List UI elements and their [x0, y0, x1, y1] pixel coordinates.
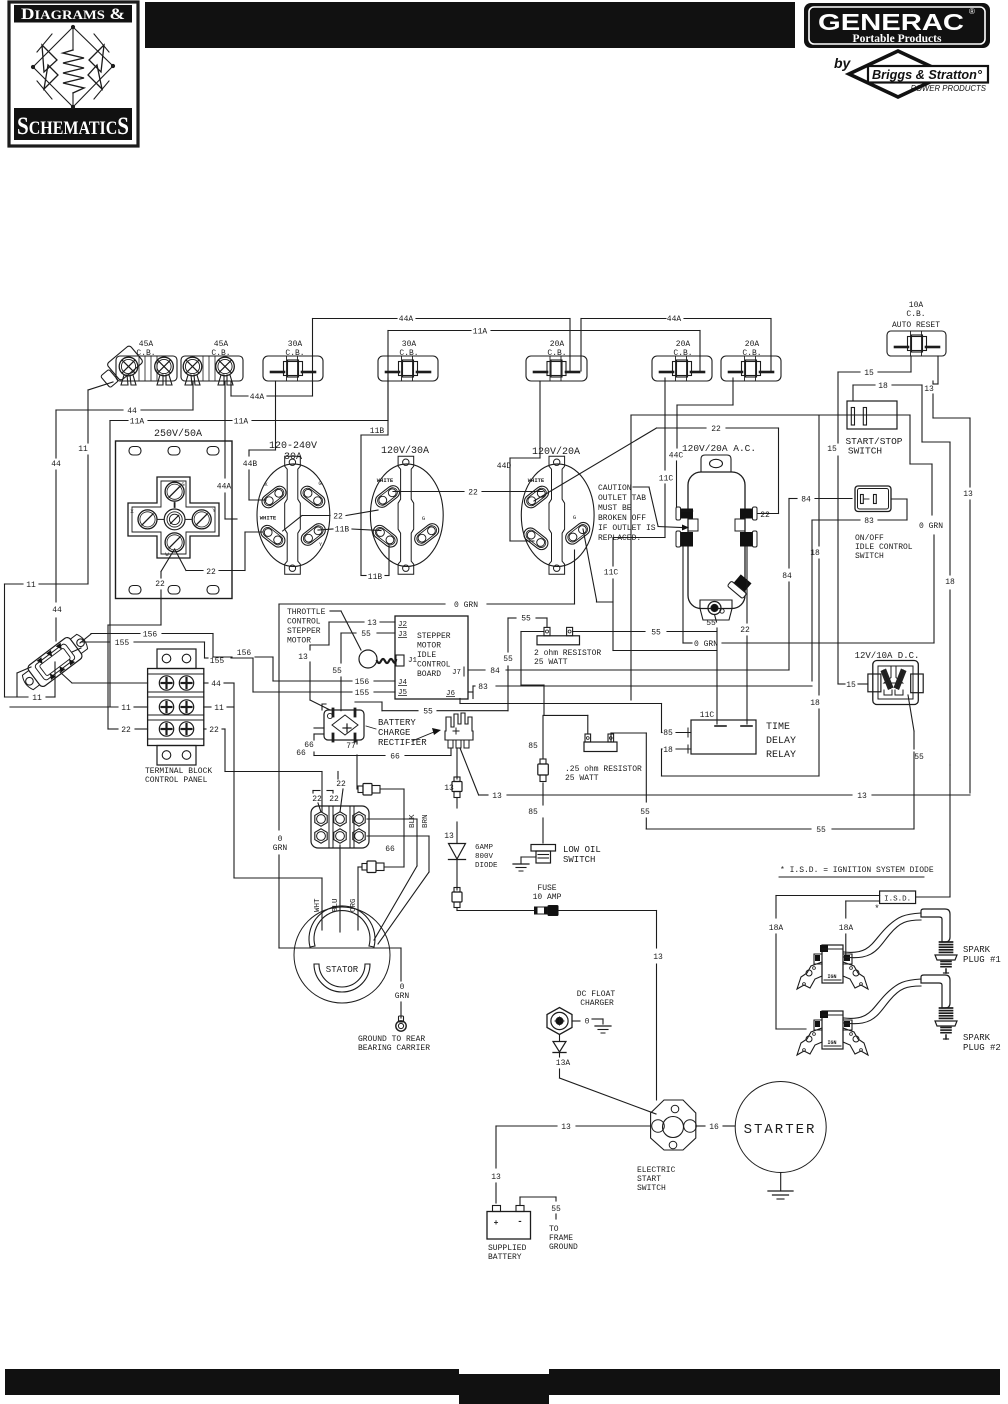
wire 55 2ohm resistor to TDR: [573, 629, 717, 638]
wire 11B outlet1 Y to outlet2 lower slot: [318, 526, 381, 535]
svg-text:CAUTION: CAUTION: [598, 484, 632, 493]
svg-text:IGN: IGN: [827, 974, 836, 980]
svg-text:TERMINAL BLOCK: TERMINAL BLOCK: [145, 767, 212, 776]
circuit breaker 45A C.B. #1: [116, 340, 177, 385]
svg-text:G: G: [318, 480, 321, 487]
svg-text:DIODE: DIODE: [475, 862, 498, 870]
switch ON/OFF idle control: [855, 486, 913, 561]
outlet 120V/20A: [521, 446, 594, 574]
svg-text:55: 55: [651, 629, 661, 638]
svg-text:*: *: [874, 904, 879, 914]
svg-text:10 AMP: 10 AMP: [533, 893, 562, 902]
svg-text:84: 84: [801, 496, 811, 505]
svg-text:44A: 44A: [250, 393, 265, 402]
svg-text:11: 11: [32, 694, 42, 703]
svg-text:ELECTRIC: ELECTRIC: [637, 1166, 676, 1175]
svg-text:55: 55: [361, 630, 371, 639]
svg-text:11A: 11A: [130, 418, 145, 427]
wire 84 ON/OFF to stepper board: [468, 496, 852, 677]
svg-text:22: 22: [711, 425, 721, 434]
svg-text:WHT: WHT: [314, 898, 322, 912]
caution note text: [598, 484, 689, 543]
svg-text:55: 55: [521, 615, 531, 624]
svg-text:11: 11: [121, 704, 131, 713]
svg-text:20A: 20A: [676, 340, 691, 349]
svg-text:BROKEN OFF: BROKEN OFF: [598, 514, 646, 523]
svg-text:GENERAC: GENERAC: [818, 9, 964, 35]
svg-text:Portable Products: Portable Products: [853, 33, 942, 45]
svg-text:44A: 44A: [399, 315, 414, 324]
svg-text:CONTROL: CONTROL: [417, 661, 451, 670]
I.S.D. diode box: [874, 765, 950, 914]
svg-text:0 GRN: 0 GRN: [454, 601, 478, 610]
wire 44 45A CB2 left screw to left connector: [51, 382, 193, 641]
6 amp diode chain: [444, 748, 498, 908]
svg-text:30A: 30A: [284, 452, 302, 463]
wire 22 AC outlet RB to time delay relay: [740, 547, 750, 724]
svg-text:22: 22: [760, 511, 770, 520]
svg-text:REPLACED.: REPLACED.: [598, 534, 641, 543]
wire 18A to coil 2: [769, 896, 880, 1030]
svg-text:83: 83: [478, 683, 488, 692]
svg-text:CHARGE: CHARGE: [378, 728, 410, 738]
svg-text:55: 55: [503, 655, 513, 664]
svg-text:0: 0: [278, 835, 283, 844]
svg-text:J6: J6: [446, 690, 456, 698]
svg-text:66: 66: [296, 749, 306, 758]
wire 85 TDR to board J6 stub: [460, 699, 691, 739]
svg-text:13: 13: [857, 792, 867, 801]
circuit breaker 30A C.B. #2: [378, 340, 438, 381]
charger diode and 13A wire: [553, 1035, 656, 1115]
svg-text:44: 44: [211, 680, 221, 689]
svg-text:SUPPLIED: SUPPLIED: [488, 1244, 527, 1253]
wire 22 from 250V outlet W to terminal block: [108, 532, 262, 735]
svg-text:85: 85: [528, 742, 538, 751]
svg-text:11B: 11B: [368, 573, 383, 582]
svg-text:WHITE: WHITE: [260, 515, 277, 522]
svg-text:25 WATT: 25 WATT: [534, 658, 568, 667]
svg-text:22: 22: [329, 795, 339, 804]
svg-text:55: 55: [423, 708, 433, 717]
svg-text:DELAY: DELAY: [766, 736, 796, 747]
svg-text:.25 ohm RESISTOR: .25 ohm RESISTOR: [565, 765, 642, 774]
svg-text:J5: J5: [398, 689, 408, 697]
svg-text:66: 66: [390, 753, 400, 762]
wire BLK coil to stator: [367, 814, 417, 940]
throttle control stepper motor label: [287, 608, 361, 650]
svg-text:SCHEMATICS: SCHEMATICS: [17, 113, 129, 140]
svg-text:PLUG #2: PLUG #2: [963, 1043, 1001, 1053]
ring terminal ground to rear bearing carrier: [358, 1016, 430, 1053]
wire 44 connector to terminal block: [60, 672, 148, 683]
svg-text:BOARD: BOARD: [417, 670, 441, 679]
svg-text:44B: 44B: [243, 460, 258, 469]
svg-text:11C: 11C: [700, 711, 715, 720]
wire 11C 20A CB2 to G slot and TDR: [583, 378, 717, 651]
svg-text:GRN: GRN: [395, 992, 410, 1001]
svg-text:45A: 45A: [139, 340, 154, 349]
svg-text:45A: 45A: [214, 340, 229, 349]
svg-text:13: 13: [653, 953, 663, 962]
wire 0 GRN stator ground run: [273, 550, 575, 948]
time delay relay K1: [691, 711, 796, 761]
svg-text:BLK: BLK: [409, 814, 417, 828]
svg-text:IDLE CONTROL: IDLE CONTROL: [855, 543, 913, 552]
left connector plug J-conn: [18, 630, 92, 695]
svg-text:11C: 11C: [604, 569, 619, 578]
svg-text:WHITE: WHITE: [528, 477, 545, 484]
svg-text:MUST BE: MUST BE: [598, 504, 632, 513]
wire 0 GRN through stator to ring terminal: [279, 948, 409, 1018]
outlet 250V/50A: [116, 428, 233, 599]
svg-text:18A: 18A: [769, 924, 784, 933]
stepper motor M1: [359, 650, 396, 668]
wire 44A (right segment) 20A CB1 to 20A CB3: [581, 315, 771, 371]
wire 11 45A CB1 to left margin loop: [5, 382, 114, 703]
svg-text:11: 11: [214, 704, 224, 713]
svg-text:C.B.: C.B.: [211, 349, 230, 358]
.25 ohm resistor R2: [565, 734, 642, 783]
svg-text:I.S.D.: I.S.D.: [884, 896, 911, 904]
svg-text:* I.S.D. = IGNITION SYSTEM DIO: * I.S.D. = IGNITION SYSTEM DIODE: [780, 866, 934, 875]
wire 11 right of terminal block: [204, 704, 234, 713]
svg-text:22: 22: [209, 726, 219, 735]
wire 83 ON/OFF to stepper board J6: [468, 499, 907, 699]
svg-text:OUTLET TAB: OUTLET TAB: [598, 494, 646, 503]
svg-text:120V/30A: 120V/30A: [381, 445, 429, 457]
svg-text:25 WATT: 25 WATT: [565, 774, 599, 783]
svg-text:BRN: BRN: [422, 814, 430, 828]
svg-text:FRAME: FRAME: [549, 1234, 573, 1243]
svg-text:18: 18: [663, 746, 673, 755]
bullet connector 1: [358, 784, 380, 796]
wire 0 charger to ground: [572, 1018, 611, 1034]
svg-text:GRN: GRN: [273, 844, 288, 853]
svg-text:-: -: [517, 1217, 522, 1227]
svg-text:66: 66: [385, 845, 395, 854]
circuit breaker 45A C.B. #2: [181, 340, 243, 385]
svg-text:30A: 30A: [288, 340, 303, 349]
wire 22 labels into connector block: [312, 772, 346, 813]
svg-text:CONTROL PANEL: CONTROL PANEL: [145, 776, 208, 785]
circuit breaker 20A C.B. #3: [721, 340, 781, 381]
svg-text:C.B.: C.B.: [673, 349, 692, 358]
svg-text:83: 83: [864, 517, 874, 526]
svg-text:TIME: TIME: [766, 722, 790, 733]
svg-text:800V: 800V: [475, 853, 494, 861]
svg-text:11A: 11A: [473, 328, 488, 337]
svg-text:22: 22: [333, 513, 343, 522]
svg-text:120V/20A A.C.: 120V/20A A.C.: [682, 443, 756, 454]
svg-text:ON/OFF: ON/OFF: [855, 534, 884, 543]
svg-text:CONTROL: CONTROL: [287, 618, 321, 627]
svg-text:J1: J1: [408, 657, 418, 665]
switch START/STOP: [845, 401, 902, 457]
wire 44C 20A CB3 to AC outlet: [669, 378, 733, 509]
wire 22 diagonal outlet3 WHITE to AC outlet top: [534, 425, 779, 520]
wire 44B 30A CB1 to outlet X: [243, 381, 276, 500]
svg-text:11: 11: [26, 581, 36, 590]
wire 13 heatsink to rail: [460, 748, 970, 801]
svg-text:MOTOR: MOTOR: [417, 642, 441, 651]
svg-text:84: 84: [490, 667, 500, 676]
GENERAC logo: [804, 3, 990, 48]
svg-text:84: 84: [782, 572, 792, 581]
svg-text:22: 22: [155, 580, 165, 589]
svg-text:22: 22: [206, 568, 216, 577]
svg-text:Briggs & Stratton°: Briggs & Stratton°: [872, 68, 983, 82]
svg-text:J4: J4: [398, 679, 408, 687]
wire 44D 20A CB1 to outlet3 lower slot: [497, 381, 540, 541]
svg-text:C.B.: C.B.: [742, 349, 761, 358]
svg-text:RELAY: RELAY: [766, 750, 796, 761]
svg-text:44A: 44A: [217, 483, 232, 492]
svg-text:20A: 20A: [745, 340, 760, 349]
wire 55 AC ground screw to TDR + resistor: [706, 615, 717, 725]
outlet 120V/20A A.C. duplex: [676, 443, 757, 620]
svg-text:0 GRN: 0 GRN: [694, 640, 718, 649]
svg-text:30A: 30A: [402, 340, 417, 349]
svg-text:13: 13: [561, 1123, 571, 1132]
svg-text:BLU: BLU: [332, 898, 340, 912]
svg-text:RECTIFIER: RECTIFIER: [378, 738, 427, 748]
wire 77 bridge to bullet connector: [346, 741, 357, 789]
svg-text:13: 13: [492, 792, 502, 801]
heatsink rectifier: [445, 713, 473, 748]
svg-text:DIAGRAMS &: DIAGRAMS &: [21, 6, 125, 23]
wire WHT stator: [314, 878, 322, 930]
svg-text:13A: 13A: [556, 1059, 571, 1068]
svg-text:44: 44: [51, 460, 61, 469]
svg-text:SWITCH: SWITCH: [637, 1184, 666, 1193]
svg-text:MOTOR: MOTOR: [287, 637, 311, 646]
bullet connector 2: [362, 861, 384, 873]
svg-text:TO: TO: [549, 1225, 559, 1234]
svg-text:20A: 20A: [550, 340, 565, 349]
Diagrams & Schematics logo box: [9, 2, 138, 146]
wire 44 right of terminal block down to stator WHT: [204, 680, 322, 878]
svg-text:SWITCH: SWITCH: [563, 855, 595, 865]
svg-text:J7: J7: [452, 669, 461, 677]
low oil switch S3: [531, 845, 601, 866]
svg-text:155: 155: [115, 639, 130, 648]
svg-text:POWER PRODUCTS: POWER PRODUCTS: [911, 84, 987, 93]
circuit breaker 20A C.B. #1: [526, 340, 587, 381]
spark plug #1 boot and plug: [844, 909, 1001, 973]
wire 155 left connector to J5: [72, 639, 395, 698]
svg-text:18A: 18A: [839, 924, 854, 933]
svg-text:15: 15: [864, 369, 874, 378]
svg-text:44: 44: [52, 606, 62, 615]
svg-text:22: 22: [468, 489, 478, 498]
svg-text:STEPPER: STEPPER: [287, 627, 321, 636]
wire 13 battery to start switch: [491, 1123, 650, 1203]
svg-text:77: 77: [346, 742, 356, 751]
svg-text:15: 15: [827, 445, 837, 454]
svg-text:18: 18: [945, 578, 955, 587]
svg-text:15: 15: [846, 681, 856, 690]
12V/10A D.C. receptacle: [855, 651, 924, 705]
svg-text:22: 22: [740, 626, 750, 635]
wire 44A (left segment) 45A CB2 to 20A CB1: [231, 315, 570, 402]
svg-text:BATTERY: BATTERY: [378, 718, 416, 728]
wire BLU stator: [332, 845, 340, 932]
DC float charger: [547, 990, 615, 1035]
svg-text:55: 55: [706, 619, 716, 628]
svg-text:22: 22: [336, 780, 346, 789]
svg-text:44A: 44A: [667, 315, 682, 324]
svg-text:J3: J3: [398, 631, 408, 639]
svg-text:44D: 44D: [497, 462, 512, 471]
svg-text:120-240V: 120-240V: [269, 441, 317, 452]
wire 85 low oil chain: [528, 715, 588, 843]
svg-text:THROTTLE: THROTTLE: [287, 608, 326, 617]
svg-text:55: 55: [914, 753, 924, 762]
svg-text:ORG: ORG: [350, 898, 358, 912]
svg-text:IF OUTLET IS: IF OUTLET IS: [598, 524, 656, 533]
svg-text:156: 156: [237, 649, 252, 658]
wire through START/STOP to 0 GRN: [631, 415, 943, 700]
wire ORG stator: [350, 867, 362, 930]
spark plug #2 boot and plug: [844, 975, 1001, 1053]
svg-text:FUSE: FUSE: [537, 884, 556, 893]
svg-text:13: 13: [491, 1173, 501, 1182]
wire 22 outlet2 WHITE to outlet3 WHITE: [393, 489, 543, 498]
electric start switch: [637, 1100, 696, 1193]
wire 18 TDR terminal: [662, 745, 692, 776]
svg-text:18: 18: [878, 382, 888, 391]
wire 66 bullet1 to bullet2: [380, 789, 404, 867]
svg-text:13: 13: [444, 832, 454, 841]
svg-text:55: 55: [816, 826, 826, 835]
svg-text:0 GRN: 0 GRN: [919, 522, 943, 531]
svg-text:G: G: [181, 481, 184, 488]
stator: [294, 906, 390, 1003]
svg-text:250V/50A: 250V/50A: [154, 428, 202, 440]
svg-text:156: 156: [355, 678, 370, 687]
svg-text:GROUND: GROUND: [549, 1243, 578, 1252]
svg-text:SPARK: SPARK: [963, 1033, 991, 1043]
wire 13 J2 to bridge rectifier: [298, 619, 395, 710]
svg-text:13: 13: [963, 490, 973, 499]
svg-text:by: by: [834, 55, 852, 71]
svg-text:CHARGER: CHARGER: [580, 999, 614, 1008]
svg-text:SWITCH: SWITCH: [855, 552, 884, 561]
svg-text:STARTER: STARTER: [744, 1122, 817, 1138]
svg-text:G: G: [573, 514, 576, 521]
supplied battery: [487, 1206, 531, 1263]
2 ohm resistor R1: [534, 627, 601, 667]
svg-text:IDLE: IDLE: [417, 651, 436, 660]
svg-text:55: 55: [640, 808, 650, 817]
svg-text:BATTERY: BATTERY: [488, 1253, 522, 1262]
svg-text:11: 11: [78, 445, 88, 454]
battery charge rectifier label: [366, 718, 441, 748]
svg-text:55: 55: [551, 1205, 561, 1214]
svg-text:13: 13: [924, 385, 934, 394]
wire 16 switch to starter: [696, 1123, 735, 1132]
svg-text:11B: 11B: [335, 526, 350, 535]
svg-text:C.B.: C.B.: [399, 349, 418, 358]
6-pin connector block: [311, 806, 369, 848]
svg-text:PLUG #1: PLUG #1: [963, 955, 1001, 965]
svg-text:44: 44: [127, 407, 137, 416]
svg-text:155: 155: [355, 689, 370, 698]
svg-text:WHITE: WHITE: [377, 477, 394, 484]
wire 13 10A CB down right margin: [924, 356, 973, 793]
svg-text:®: ®: [969, 7, 975, 16]
svg-text:DC FLOAT: DC FLOAT: [577, 990, 616, 999]
svg-text:12V/10A D.C.: 12V/10A D.C.: [855, 651, 920, 661]
svg-text:G: G: [422, 515, 425, 522]
wire 66 rail bridge-heatsink: [296, 734, 451, 762]
svg-text:18: 18: [810, 699, 820, 708]
circuit breaker 20A C.B. #2: [652, 340, 712, 381]
svg-text:0: 0: [585, 1018, 590, 1027]
svg-text:2 ohm RESISTOR: 2 ohm RESISTOR: [534, 649, 601, 658]
wire 15 10A CB to 12V DC plug: [827, 356, 911, 690]
top black banner bar: [145, 2, 795, 48]
wire 11B 30A CB2 to outlet2 lower slot: [361, 378, 389, 582]
svg-text:6AMP: 6AMP: [475, 844, 494, 852]
wire 18 (2nd) down to TDR: [662, 416, 820, 777]
svg-text:10A: 10A: [909, 301, 924, 310]
svg-text:AUTO RESET: AUTO RESET: [892, 321, 940, 330]
svg-text:55: 55: [332, 667, 342, 676]
wire 44A into 250V outlet Y: [217, 382, 237, 519]
wire 22 right of terminal block to connector block: [204, 726, 322, 812]
svg-text:START: START: [637, 1175, 661, 1184]
wire 156 left connector to J4: [80, 631, 395, 688]
ignition coil 1: [797, 945, 868, 989]
svg-text:85: 85: [663, 729, 673, 738]
wire 85 2ohm left down to low-oil junction: [521, 632, 544, 716]
svg-text:85: 85: [528, 808, 538, 817]
svg-text:16: 16: [709, 1123, 719, 1132]
stepper motor idle control board U1: [395, 616, 468, 699]
svg-text:156: 156: [143, 631, 158, 640]
footer black bars: [5, 1369, 459, 1395]
circuit breaker 10A C.B. AUTO RESET: [887, 301, 946, 356]
wire 0 GRN AC outlet to right column: [683, 535, 934, 649]
connector plug on 45A C.B. #1: [100, 345, 143, 388]
svg-text:LOW OIL: LOW OIL: [563, 845, 601, 855]
wire 55 J3 to rail: [332, 630, 395, 711]
wire 55 rail rectifier to 2ohm resistor: [355, 615, 547, 717]
terminal block control panel TB1: [145, 649, 212, 785]
wire 22 outlet1 W to outlet2 WHITE: [283, 510, 378, 531]
ISD note: [779, 866, 934, 877]
svg-text:BEARING CARRIER: BEARING CARRIER: [358, 1044, 430, 1053]
circuit breaker 30A C.B. #1: [263, 340, 323, 381]
svg-text:STATOR: STATOR: [326, 965, 359, 975]
svg-text:STEPPER: STEPPER: [417, 632, 451, 641]
svg-text:J2: J2: [398, 621, 407, 629]
starter motor: [735, 1082, 826, 1200]
outlet 120-240V 30A: [257, 441, 330, 574]
svg-text:SPARK: SPARK: [963, 945, 991, 955]
wire 13 fuse line: [457, 908, 663, 1100]
bridge rectifier (battery charge): [314, 704, 364, 741]
svg-text:IGN: IGN: [827, 1040, 836, 1046]
wire BRN coil to stator: [367, 814, 430, 944]
wire 55 12V plug to rail: [611, 695, 924, 835]
wire 11A horizontal run: [110, 328, 700, 427]
svg-text:13: 13: [298, 653, 308, 662]
svg-text:+: +: [494, 1219, 499, 1228]
svg-text:22: 22: [312, 795, 322, 804]
